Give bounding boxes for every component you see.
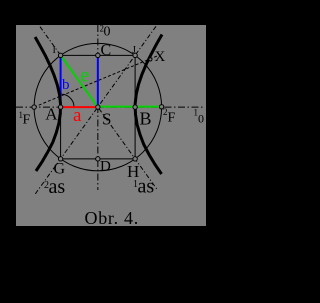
black page background bbox=[0, 0, 226, 303]
svg-text:as: as bbox=[49, 176, 66, 198]
svg-text:F: F bbox=[23, 113, 31, 128]
svg-text:e: e bbox=[81, 65, 90, 87]
svg-text:0: 0 bbox=[198, 112, 204, 126]
rectangle bottom side G-H bbox=[61, 158, 136, 160]
svg-text:A: A bbox=[45, 105, 58, 124]
segment b (I to A) blue bbox=[60, 55, 62, 107]
node B bbox=[133, 105, 137, 109]
node G bbox=[58, 157, 62, 161]
rectangle right side J-H bbox=[134, 55, 136, 159]
rectangle left side I-G bbox=[60, 55, 62, 159]
segment b2 (C to S) blue bbox=[97, 55, 99, 107]
svg-text:D: D bbox=[100, 159, 111, 175]
asymptote 2as (through J,S,G) bbox=[35, 26, 157, 195]
node A bbox=[58, 105, 62, 109]
circle radius e about S bbox=[34, 43, 162, 171]
node X bbox=[149, 58, 152, 61]
axis 2o vertical dash-dot bbox=[97, 25, 99, 190]
rectangle top side I-J bbox=[61, 54, 136, 56]
svg-text:C: C bbox=[101, 42, 112, 59]
svg-text:G: G bbox=[54, 161, 66, 178]
segment e2 (S to F2) green bbox=[98, 106, 162, 108]
svg-text:0: 0 bbox=[104, 25, 111, 40]
svg-text:Obr. 4.: Obr. 4. bbox=[85, 208, 139, 228]
node S bbox=[96, 105, 100, 109]
svg-text:J: J bbox=[132, 45, 136, 56]
segment e (I to S) green bbox=[61, 55, 98, 107]
angle arc at A bbox=[59, 94, 74, 107]
asymptote 1as (through I,S,H) bbox=[40, 27, 158, 190]
svg-text:S: S bbox=[102, 110, 111, 129]
hyperbola left branch bbox=[35, 37, 60, 171]
node I bbox=[58, 53, 62, 57]
line F1 to X dashed bbox=[34, 56, 158, 108]
svg-text:a: a bbox=[73, 105, 82, 126]
svg-text:X: X bbox=[155, 49, 166, 65]
gray drawing canvas bbox=[16, 25, 206, 226]
svg-text:as: as bbox=[138, 176, 155, 198]
node H bbox=[133, 157, 137, 161]
svg-text:b: b bbox=[62, 77, 70, 93]
hyperbola right branch bbox=[135, 35, 162, 175]
node F1 bbox=[32, 105, 36, 109]
node J bbox=[133, 53, 137, 57]
node C bbox=[96, 53, 100, 57]
node D bbox=[96, 157, 100, 161]
segment a (A to S) red bbox=[61, 106, 98, 108]
node F2 bbox=[159, 105, 163, 109]
axis 1o horizontal dash-dot bbox=[16, 106, 205, 108]
svg-text:B: B bbox=[140, 109, 152, 129]
svg-text:I: I bbox=[53, 45, 56, 56]
svg-text:F: F bbox=[168, 111, 176, 126]
